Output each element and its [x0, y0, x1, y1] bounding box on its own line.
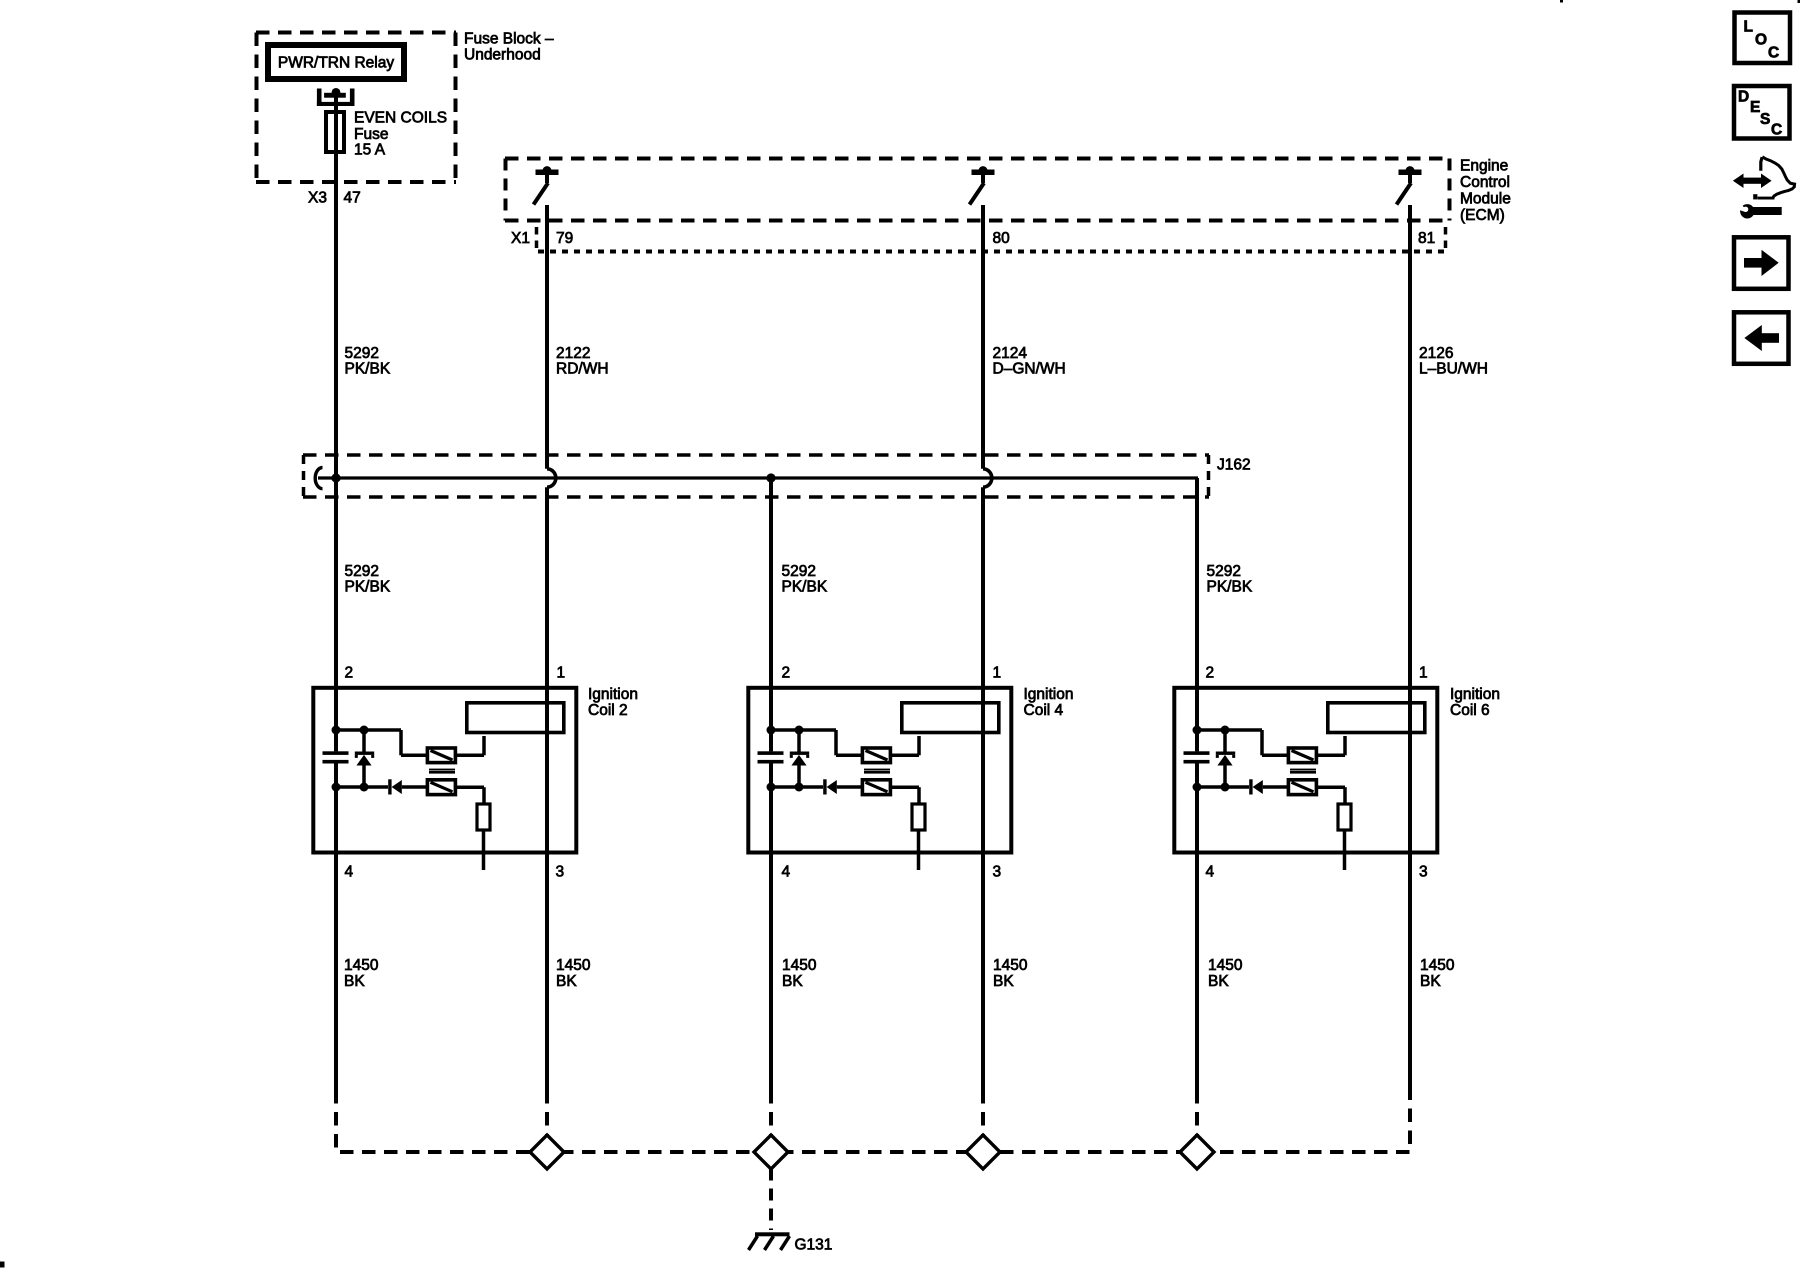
wire 2122 RD/WH ECM 79 to coil2 pin1 and 1450 BK below — [547, 205, 556, 1090]
wire label 1450 BK coil6 pin4 — [1208, 957, 1243, 990]
svg-text:4: 4 — [345, 864, 354, 881]
nav icon forward arrow box — [1734, 237, 1789, 288]
svg-text:2122: 2122 — [556, 345, 590, 362]
coil 2 core bars — [429, 769, 455, 774]
ground symbol G131 — [749, 1232, 790, 1250]
coil 2 secondary output stub — [482, 830, 486, 870]
svg-text:BK: BK — [1420, 973, 1441, 990]
nav icon component outline — [1753, 157, 1794, 200]
wire label 2122 RD/WH — [556, 345, 609, 378]
svg-text:BK: BK — [344, 973, 365, 990]
svg-text:2: 2 — [782, 665, 791, 682]
svg-text:3: 3 — [993, 864, 1002, 881]
svg-text:BK: BK — [556, 973, 577, 990]
svg-text:C: C — [1768, 44, 1779, 61]
svg-text:Underhood: Underhood — [464, 47, 541, 64]
coil 2 internal wiring top rail — [334, 730, 426, 755]
dashed drop coil4 pin3 — [981, 1090, 985, 1152]
svg-text:PK/BK: PK/BK — [345, 361, 391, 378]
svg-text:(ECM): (ECM) — [1460, 207, 1505, 224]
svg-text:5292: 5292 — [782, 563, 816, 580]
junction splice node on 5292 feed — [331, 473, 340, 482]
wire 5292 PK/BK J162 branch to coil4 pin2 — [769, 478, 773, 1090]
svg-text:Control: Control — [1460, 174, 1510, 191]
coil 4 wiring to resistor — [891, 787, 920, 804]
coil 6 wiring to resistor — [1317, 787, 1346, 804]
coil 2 internal node junctions — [332, 726, 369, 792]
coil 2 internal wiring lower rail — [334, 785, 388, 789]
wire label 5292 PK/BK coil6 — [1207, 563, 1253, 596]
svg-text:Ignition: Ignition — [1450, 686, 1500, 703]
coil 4 secondary output stub — [917, 830, 921, 870]
splice diamond S2 — [754, 1135, 788, 1169]
coil 6 resistor R1 — [1338, 804, 1351, 830]
wire 2124 D-GN/WH ECM 80 to coil4 pin1 and 1450 BK below — [983, 205, 992, 1090]
nav icon back arrow box — [1734, 312, 1789, 364]
ECM pin labels X1 79 80 81 — [511, 230, 1435, 247]
svg-text:2: 2 — [345, 665, 354, 682]
coil 4 driver module lower block — [862, 780, 890, 795]
coil 4 wiring to primary winding — [891, 736, 920, 755]
dashed ground bus 1450 BK — [336, 1090, 1410, 1152]
svg-text:3: 3 — [1419, 864, 1428, 881]
svg-text:D–GN/WH: D–GN/WH — [993, 361, 1066, 378]
splice diamond S1 — [530, 1135, 564, 1169]
dashed drop coil4 pin4 — [769, 1090, 773, 1152]
svg-text:Coil 4: Coil 4 — [1024, 702, 1064, 719]
coil 2 resistor R1 — [477, 804, 490, 830]
connector pin label X3 47 — [308, 190, 361, 207]
svg-text:1450: 1450 — [993, 957, 1028, 974]
nav icon double arrow — [1733, 174, 1772, 189]
coil 2 zener diode VR1 — [355, 730, 374, 787]
ignition coil 6 box — [1174, 688, 1437, 853]
wire from relay to fuse — [334, 93, 338, 112]
svg-text:3: 3 — [556, 864, 565, 881]
ignition coil 6 name label — [1450, 686, 1500, 719]
svg-text:47: 47 — [344, 190, 361, 207]
coil 2 wiring to resistor — [456, 787, 485, 804]
ECM connector separator right — [1444, 227, 1448, 250]
coil 4 core bars — [864, 769, 890, 774]
coil 6 secondary output stub — [1343, 830, 1347, 870]
svg-text:1: 1 — [1419, 665, 1428, 682]
coil 4 internal wiring lower rail — [769, 785, 823, 789]
svg-text:EVEN COILS: EVEN COILS — [354, 110, 447, 127]
coil 4 zener diode VR1 — [790, 730, 809, 787]
svg-text:D: D — [1738, 88, 1749, 105]
coil 2 diode CR1 — [388, 779, 426, 794]
fuse block underhood dashed box — [256, 33, 456, 183]
svg-text:1450: 1450 — [782, 957, 817, 974]
svg-text:81: 81 — [1418, 230, 1435, 247]
wire label 1450 BK coil6 pin3 — [1420, 957, 1455, 990]
svg-text:L: L — [1744, 18, 1753, 35]
svg-text:Ignition: Ignition — [1024, 686, 1074, 703]
svg-text:Fuse Block –: Fuse Block – — [464, 31, 554, 48]
splice pack J162 dashed box — [303, 455, 1209, 497]
coil 2 capacitor C1 — [323, 730, 349, 787]
svg-text:RD/WH: RD/WH — [556, 361, 609, 378]
ECM connector separator left — [535, 227, 539, 250]
svg-text:BK: BK — [993, 973, 1014, 990]
svg-text:Engine: Engine — [1460, 158, 1508, 175]
coil 2 driver module lower block — [427, 780, 455, 795]
wire label 1450 BK coil2 pin3 — [556, 957, 591, 990]
coil 6 diode CR1 — [1249, 779, 1287, 794]
coil 6 driver module upper block — [1288, 748, 1316, 763]
svg-text:Coil 6: Coil 6 — [1450, 702, 1490, 719]
svg-text:4: 4 — [782, 864, 791, 881]
dashed wire to ground G131 — [769, 1169, 773, 1231]
svg-text:PK/BK: PK/BK — [345, 579, 391, 596]
wire label 1450 BK coil2 pin4 — [344, 957, 379, 990]
svg-text:Coil 2: Coil 2 — [588, 702, 628, 719]
svg-text:PK/BK: PK/BK — [1207, 579, 1253, 596]
svg-text:G131: G131 — [795, 1237, 833, 1254]
svg-text:S: S — [1760, 111, 1770, 128]
wire label 5292 PK/BK coil2 — [345, 563, 391, 596]
wire 5292 PK/BK J162 branch to coil6 pin2 — [1195, 478, 1199, 1090]
fuse F1 EVEN COILS 15 A — [326, 112, 344, 152]
wire 2126 L-BU/WH ECM 81 to coil6 pin1 and 1450 BK below — [1408, 205, 1412, 1090]
svg-text:4: 4 — [1206, 864, 1215, 881]
wire 5292 PK/BK from fuse to coil2 pin2 — [334, 152, 338, 751]
splice diamond S3 — [966, 1135, 1000, 1169]
coil 6 wiring to primary winding — [1317, 736, 1346, 755]
coil 4 resistor R1 — [912, 804, 925, 830]
svg-text:X1: X1 — [511, 230, 530, 247]
svg-text:X3: X3 — [308, 190, 327, 207]
relay contact terminal — [317, 88, 355, 106]
dashed drop coil6 pin4 — [1195, 1090, 1199, 1152]
ignition coil 4 box — [748, 688, 1011, 853]
wire label 2126 L-BU/WH — [1419, 345, 1488, 378]
coil 6 capacitor C1 — [1184, 730, 1210, 787]
fuse block underhood label — [464, 31, 554, 64]
svg-text:1450: 1450 — [1208, 957, 1243, 974]
svg-text:L–BU/WH: L–BU/WH — [1419, 361, 1488, 378]
coil 6 internal wiring top rail — [1195, 730, 1287, 755]
wire label 2124 D-GN/WH — [993, 345, 1066, 378]
nav icon wrench — [1736, 202, 1782, 219]
ignition coil 2 box — [313, 688, 576, 853]
speck bottom left — [0, 1262, 5, 1268]
coil 4 capacitor C1 — [758, 730, 784, 787]
coil 6 primary winding — [1328, 703, 1425, 733]
svg-text:Fuse: Fuse — [354, 126, 388, 143]
svg-text:Module: Module — [1460, 191, 1511, 208]
coil 4 internal wiring top rail — [769, 730, 861, 755]
wire label 1450 BK coil4 pin3 — [993, 957, 1028, 990]
svg-text:O: O — [1755, 31, 1767, 48]
junction splice node coil 4 branch — [766, 473, 775, 482]
svg-text:15 A: 15 A — [354, 142, 386, 159]
splice diamond S4 — [1180, 1135, 1214, 1169]
ECM low-side driver pin 81 — [1397, 166, 1422, 204]
coil 6 zener diode VR1 — [1216, 730, 1235, 787]
coil 2 primary winding — [467, 703, 564, 733]
coil 6 internal node junctions — [1193, 726, 1230, 792]
svg-text:Ignition: Ignition — [588, 686, 638, 703]
svg-text:BK: BK — [782, 973, 803, 990]
dashed drop coil2 pin3 — [545, 1090, 549, 1152]
nav icon DESC box — [1734, 86, 1790, 139]
coil 4 diode CR1 — [823, 779, 861, 794]
coil 6 driver module lower block — [1288, 780, 1316, 795]
svg-text:5292: 5292 — [1207, 563, 1241, 580]
speck top edge 1 — [1560, 0, 1563, 3]
fuse value label — [354, 110, 447, 159]
nav icon LOC box — [1735, 13, 1791, 64]
svg-text:BK: BK — [1208, 973, 1229, 990]
coil 6 core bars — [1290, 769, 1316, 774]
wire label 5292 PK/BK upper — [345, 345, 391, 378]
svg-text:2124: 2124 — [993, 345, 1028, 362]
wire label 5292 PK/BK coil4 — [782, 563, 828, 596]
wire coil2 pin4 1450 BK — [334, 764, 338, 1091]
splice bus wire in J162 — [315, 468, 1198, 489]
coil 4 driver module upper block — [862, 748, 890, 763]
coil 4 internal node junctions — [767, 726, 804, 792]
svg-text:C: C — [1771, 122, 1782, 139]
coil 2 wiring to primary winding — [456, 736, 485, 755]
svg-text:1450: 1450 — [1420, 957, 1455, 974]
svg-text:1: 1 — [557, 665, 566, 682]
svg-text:J162: J162 — [1217, 457, 1251, 474]
svg-text:80: 80 — [993, 230, 1011, 247]
Engine Control Module ECM dashed box — [505, 159, 1450, 221]
svg-text:1450: 1450 — [556, 957, 591, 974]
svg-text:1450: 1450 — [344, 957, 379, 974]
ECM label — [1460, 158, 1511, 225]
svg-text:2: 2 — [1206, 665, 1215, 682]
svg-text:E: E — [1750, 99, 1760, 116]
svg-text:PK/BK: PK/BK — [782, 579, 828, 596]
coil 6 internal wiring lower rail — [1195, 785, 1249, 789]
coil 2 driver module upper block — [427, 748, 455, 763]
svg-text:79: 79 — [556, 230, 573, 247]
svg-text:2126: 2126 — [1419, 345, 1453, 362]
relay K1 PWR/TRN Relay label box — [268, 45, 404, 79]
ignition coil 4 name label — [1024, 686, 1074, 719]
coil 4 primary winding — [902, 703, 999, 733]
svg-text:PWR/TRN Relay: PWR/TRN Relay — [278, 55, 395, 72]
ECM connector X1 dotted line — [538, 250, 1450, 254]
ignition coil 2 name label — [588, 686, 638, 719]
speck top edge 2 — [1798, 0, 1800, 3]
svg-text:5292: 5292 — [345, 563, 379, 580]
ECM low-side driver pin 79 — [534, 166, 559, 204]
svg-text:5292: 5292 — [345, 345, 379, 362]
ECM low-side driver pin 80 — [970, 166, 995, 204]
wire label 1450 BK coil4 pin4 — [782, 957, 817, 990]
svg-text:1: 1 — [993, 665, 1002, 682]
